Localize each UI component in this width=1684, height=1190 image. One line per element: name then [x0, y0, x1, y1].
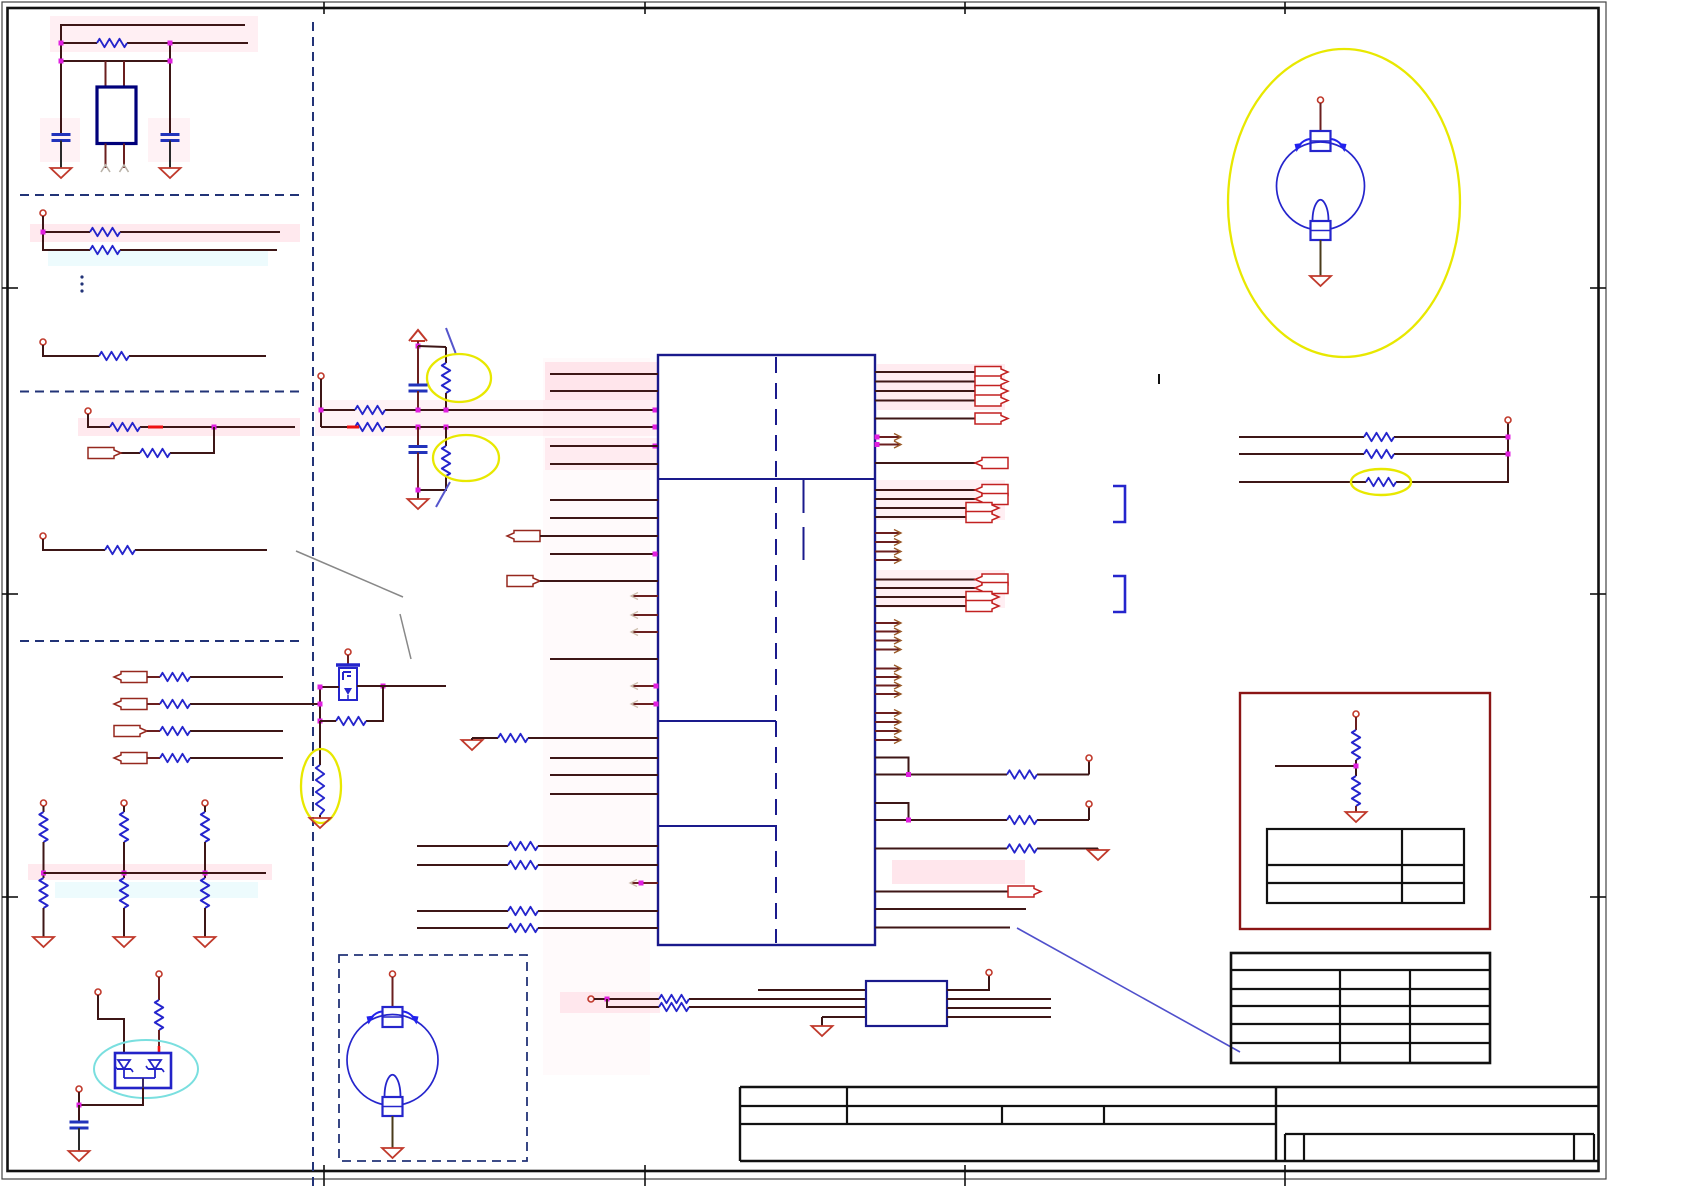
wire U1 right stub y713	[875, 710, 901, 717]
connector flag out y517	[966, 512, 999, 523]
wire U1 right stub y694	[875, 691, 901, 698]
bracket mark 1	[1113, 486, 1125, 522]
pin PT2	[156, 971, 162, 977]
ground RB	[1346, 812, 1367, 822]
wire U1 left pin y554	[550, 553, 658, 555]
wire U1 right pin y490	[875, 489, 975, 491]
wire Q1 vertical	[319, 687, 321, 721]
wire U1 right stub y444.5	[875, 441, 901, 448]
connector flag in y499	[975, 494, 1008, 505]
power arrow VCC	[409, 330, 427, 346]
ground bm	[812, 1026, 833, 1036]
yellow ellipse mark 2	[427, 354, 491, 402]
pin P3	[85, 408, 91, 414]
capacitor C3	[409, 385, 428, 391]
wire U1 right stub y623	[875, 620, 901, 627]
wire C1 to gnd	[60, 141, 62, 169]
pin PT3	[76, 1086, 82, 1092]
connector flag in y490	[975, 485, 1008, 496]
table small	[1267, 829, 1464, 903]
wire U1 pin 738	[472, 738, 658, 740]
U1 divider 1	[658, 478, 875, 480]
pin PRB	[1353, 711, 1359, 717]
resistor R11	[160, 754, 190, 762]
ground C1	[51, 168, 72, 178]
capacitor C2	[161, 135, 180, 141]
junction bm	[605, 997, 610, 1002]
wire U1 stub y632	[631, 629, 658, 636]
resistor RD2	[120, 878, 128, 908]
wire U1 pin 928a	[417, 927, 508, 929]
wire row4c	[121, 427, 214, 453]
wire row F	[875, 927, 1010, 929]
pin PQ	[345, 649, 351, 655]
wire U1 right pin y372	[875, 371, 975, 373]
resistor R28	[1366, 478, 1396, 486]
crystal Y1 top leads	[106, 61, 125, 87]
wire XTAL lower link	[61, 60, 170, 62]
connector flag F7	[507, 576, 540, 587]
pin P2	[40, 339, 46, 345]
resistor R33	[1352, 776, 1360, 806]
wire TVS right leg upper	[158, 977, 160, 1000]
wire loop B	[875, 803, 1089, 820]
resistor R31	[659, 1003, 689, 1011]
wire U1 left pin y775	[550, 774, 658, 776]
wire RB stub left	[1275, 765, 1356, 767]
junction dots mid	[319, 408, 658, 449]
junction divider 3	[203, 871, 208, 876]
pin PT1	[95, 989, 101, 995]
wire U1 pin 928b	[538, 927, 658, 929]
dashed partition h1	[20, 194, 303, 196]
wire U1 pin 911a	[417, 910, 508, 912]
wire left leg	[60, 43, 62, 135]
wire row4b	[214, 426, 295, 428]
wire flag row 1	[147, 676, 283, 678]
wire divider col 2 upper	[123, 806, 125, 812]
dashed partition h2	[20, 391, 303, 393]
wire bm row0	[758, 989, 866, 991]
wire row4a	[88, 414, 214, 427]
wire U1 left pin y374	[550, 373, 658, 375]
wire U1 right stub y640.5	[875, 637, 901, 644]
wire divider col 1 mid	[43, 842, 45, 878]
wire Q1 gate left	[320, 686, 339, 688]
connector flag out y381.5	[975, 376, 1008, 387]
pin PD1	[41, 800, 47, 806]
wire U2 out3	[947, 1016, 1051, 1018]
tick mark small	[1158, 374, 1160, 384]
wire U1 right pin y400.5	[875, 400, 975, 402]
pin PB1	[588, 996, 594, 1002]
wire U1 right pin y391	[875, 390, 975, 392]
wire U1 right pin 463	[875, 462, 975, 464]
wire divider col 3 upper	[204, 806, 206, 812]
connector flag out 418	[975, 413, 1008, 424]
wire U1 right pin y517	[875, 516, 966, 518]
wire C5 gnd	[78, 1128, 80, 1151]
wire flag row 4	[147, 757, 283, 759]
wire U2 out1	[947, 998, 1051, 1000]
capacitor C4	[409, 447, 428, 453]
junction divider 1	[41, 871, 46, 876]
connector flag out y606	[966, 601, 999, 612]
wire flag row 2	[147, 703, 320, 705]
wire to R13	[319, 721, 321, 765]
wire row1	[43, 216, 280, 232]
wire junction to C5	[78, 1105, 80, 1122]
junction lower	[416, 488, 421, 493]
resistor R32	[1352, 730, 1360, 760]
resistor R30	[659, 995, 689, 1003]
junction sec2	[41, 230, 46, 235]
resistor R17	[442, 446, 450, 476]
wire net A upper	[321, 379, 658, 410]
diode pack D1	[115, 1053, 171, 1088]
wire divider col 3 lower	[204, 908, 206, 937]
wire U1 right stub y560	[875, 557, 901, 564]
ic U2	[866, 981, 947, 1026]
wire bm row1	[594, 998, 866, 1000]
wire U1 stub y596	[631, 593, 658, 600]
resistor R19	[508, 842, 538, 850]
resistor R12	[336, 717, 366, 725]
wire C4 down	[417, 453, 419, 491]
wire U1 pin 865a	[417, 864, 508, 866]
resistor R27	[1364, 450, 1394, 458]
resistor R26	[1364, 433, 1394, 441]
wire U1 right pin y381.5	[875, 381, 975, 383]
wire RB mid	[1355, 760, 1357, 776]
stray line (artifact)	[296, 551, 411, 659]
wire U1 right pin y597	[875, 596, 966, 598]
red segment row4	[148, 426, 163, 429]
wire U1 stub y704	[631, 701, 658, 708]
resistor R24	[1007, 816, 1037, 824]
tag flag T1	[88, 448, 121, 459]
title block	[740, 1087, 1598, 1161]
wire U1 right stub y649.5	[875, 646, 901, 653]
wire U1 left pin y659	[550, 658, 658, 660]
wire divider col 1 lower	[43, 908, 45, 937]
wire TVS left leg	[98, 995, 124, 1053]
wire pin to junction	[78, 1092, 80, 1105]
ground divider 1	[33, 937, 54, 947]
wire U1 right stub y740	[875, 737, 901, 744]
wire C2 to gnd	[169, 141, 171, 169]
resistor R4	[99, 352, 129, 360]
junction right stubs	[875, 435, 880, 448]
ellipsis dots	[80, 275, 83, 292]
yellow ellipse mark 1	[301, 749, 341, 823]
resistor R15	[355, 406, 385, 414]
wire U1 pin 846a	[417, 845, 508, 847]
wire RB upper	[1355, 717, 1357, 730]
connector flag out y391	[975, 386, 1008, 397]
ground row C	[1088, 850, 1109, 860]
crystal Y1	[97, 87, 136, 144]
wire R17 down	[418, 476, 446, 499]
ground C5	[69, 1151, 90, 1161]
junction loop B	[906, 818, 911, 823]
connector flag F3	[114, 699, 147, 710]
U1 divider 3	[658, 825, 776, 827]
wire U1 stub 883	[630, 880, 658, 887]
wire divider col 2 lower	[123, 908, 125, 937]
wire U1 stub y615	[631, 612, 658, 619]
wire right leg	[169, 43, 171, 135]
wire Q1 drain top	[347, 655, 349, 664]
red segment net B	[347, 426, 359, 429]
wire R12 left	[320, 720, 336, 722]
red frame box	[1240, 693, 1490, 929]
ground divider 2	[114, 937, 135, 947]
blue slash mark 1	[446, 328, 456, 353]
wire U1 right stub y437	[875, 434, 901, 441]
wire R13 gnd	[319, 815, 321, 818]
wire U1 left pin y518	[550, 517, 658, 519]
ground divider 3	[195, 937, 216, 947]
wire net B lower	[321, 410, 658, 427]
wire U1 left pin y758	[550, 757, 658, 759]
wire net R vertical	[1507, 423, 1509, 482]
wire U1 stub y686	[631, 683, 658, 690]
wire divider col 1 upper	[43, 806, 45, 812]
U1 inner stubs	[803, 480, 805, 560]
resistor R3	[90, 246, 120, 254]
U1 divider 2	[658, 720, 776, 722]
ground R13	[310, 818, 331, 828]
pin PD2	[121, 800, 127, 806]
transistor Q1	[336, 665, 360, 700]
connector flag F5	[114, 753, 147, 764]
pin loop A	[1086, 755, 1092, 761]
resistor RD1	[39, 878, 47, 908]
wire U1 left pin y464	[550, 463, 658, 465]
dashed partition h3	[20, 640, 303, 642]
wire row D	[875, 891, 1008, 893]
resistor RU1	[39, 812, 47, 842]
wire RB lower	[1355, 806, 1357, 812]
connector flag out y508	[966, 503, 999, 514]
wire U1 right stub y542	[875, 539, 901, 546]
resistor R1	[97, 39, 127, 47]
wire U1 right pin y606	[875, 605, 966, 607]
pin P4	[40, 533, 46, 539]
wire U1 pin 581	[540, 580, 658, 582]
pin PB2	[986, 970, 992, 976]
wire net R3 row	[1239, 481, 1509, 483]
wire R14 down	[445, 393, 447, 410]
wire row2	[43, 232, 277, 250]
wire TVS right leg lower	[158, 1030, 160, 1046]
wire C3 down	[417, 391, 419, 410]
wire U2 out2	[947, 1007, 1051, 1009]
wire U1 right pin y579.5	[875, 579, 975, 581]
wire U1 right pin y499	[875, 498, 975, 500]
junction divider 2	[122, 871, 127, 876]
pointer line (blue)	[1017, 928, 1240, 1052]
wire net XTAL top	[61, 25, 245, 43]
wire U1 pin 846b	[538, 845, 658, 847]
resistor R13	[316, 765, 324, 815]
wire U1 right stub y685.5	[875, 682, 901, 689]
dashed partition vertical	[312, 22, 314, 1188]
wire U1 right stub y668.5	[875, 665, 901, 672]
wire U1 left pin y446	[550, 445, 658, 447]
no-connect marks	[101, 165, 129, 172]
wire row C	[875, 849, 1098, 851]
connector flag F4	[114, 726, 147, 737]
junction VCC	[416, 344, 421, 349]
wire Q1 right	[357, 685, 446, 687]
wire U1 right pin y588	[875, 587, 975, 589]
wire divider bus	[44, 872, 267, 874]
table large	[1231, 953, 1490, 1063]
motor/buzzer LS1	[1277, 97, 1365, 286]
junction TVS	[77, 1103, 82, 1108]
pin loop B	[1086, 801, 1092, 807]
resistor RU3	[201, 812, 209, 842]
capacitor C5	[70, 1122, 89, 1128]
connector flag out y597	[966, 592, 999, 603]
connector flag out y372	[975, 367, 1008, 378]
wire divider col 3 mid	[204, 842, 206, 878]
junction row4	[212, 425, 217, 430]
wire divider col 2 mid	[123, 842, 125, 878]
wire U1 pin 911b	[538, 910, 658, 912]
wire R17 top	[445, 427, 447, 446]
bracket mark 2	[1113, 576, 1125, 612]
resistor R8	[160, 673, 190, 681]
motor/buzzer LS2	[347, 971, 438, 1158]
connector flag in 463	[975, 458, 1008, 469]
junction stub 883	[639, 552, 659, 886]
wire U1 right stub y731	[875, 728, 901, 735]
resistor R2	[90, 228, 120, 236]
wire C4 top	[417, 427, 419, 447]
resistor R23	[1007, 770, 1037, 778]
connector flag in y588	[975, 583, 1008, 594]
wire U1 left pin y500	[550, 499, 658, 501]
wire Q1 feedback	[366, 686, 383, 721]
resistor R14	[442, 363, 450, 393]
resistor R7	[105, 546, 135, 554]
ground mid	[408, 499, 429, 509]
highlight glow (decorative)	[28, 16, 1025, 1075]
wire U1 right stub y533	[875, 530, 901, 537]
wire row E	[875, 908, 1026, 910]
yellow ellipse mark 4	[1351, 469, 1411, 495]
cyan ellipse mark	[94, 1040, 198, 1098]
resistor RD3	[201, 878, 209, 908]
wire bm row2	[607, 999, 866, 1007]
wire U1 left pin y391	[550, 390, 658, 392]
resistor RU2	[120, 812, 128, 842]
U1 center dashed line	[775, 357, 777, 943]
crystal Y1 bottom leads	[106, 144, 125, 169]
connector flag out y400.5	[975, 395, 1008, 406]
ground C2	[160, 168, 181, 178]
connector flag F2	[114, 672, 147, 683]
wire U1 left pin y794	[550, 793, 658, 795]
resistor R10	[160, 727, 190, 735]
wire row5	[43, 539, 267, 550]
pin PD3	[202, 800, 208, 806]
blue slash mark 2	[436, 482, 450, 507]
junction dots XTAL	[59, 41, 173, 64]
wire net R1 row	[1239, 436, 1508, 438]
connector flag in y579.5	[975, 574, 1008, 585]
resistor R21	[508, 907, 538, 915]
wire U1 right stub y677	[875, 674, 901, 681]
junctions Q1	[318, 684, 386, 724]
junction RB	[1354, 764, 1359, 769]
wire VCC to C3	[417, 346, 419, 385]
wire U1 right stub y722	[875, 719, 901, 726]
wire U1 pin 536	[540, 535, 658, 537]
junction loop A	[906, 772, 911, 777]
wire U1 right pin y508	[875, 507, 966, 509]
yellow ellipse mark 3	[433, 435, 499, 481]
wire XTAL1 row	[61, 42, 248, 44]
wire flag row 3	[147, 730, 283, 732]
yellow ellipse mark 5	[1228, 49, 1460, 357]
red segment TVS	[158, 1046, 161, 1053]
resistor R18	[498, 734, 528, 742]
wire row3	[43, 345, 266, 356]
ground row U1	[462, 740, 483, 750]
capacitor C1	[52, 135, 71, 141]
pin PR	[1505, 417, 1511, 423]
wire U1 right stub y631.5	[875, 628, 901, 635]
wire U1 right pin 418	[875, 418, 975, 420]
wire loop A	[875, 758, 1089, 775]
wire net R2 row	[1239, 453, 1508, 455]
resistor R5	[110, 423, 140, 431]
resistor R6	[140, 449, 170, 457]
resistor R9	[160, 700, 190, 708]
pin P1	[40, 210, 46, 216]
resistor R20	[508, 861, 538, 869]
junctions net R	[1506, 435, 1511, 457]
wire VCC to R14	[418, 346, 446, 363]
resistor R16	[355, 423, 385, 431]
op-amp U1 body	[658, 355, 875, 945]
connector flag F6	[507, 531, 540, 542]
dashed box	[339, 955, 527, 1161]
wire U1 pin 865b	[538, 864, 658, 866]
pin P5	[318, 373, 324, 379]
resistor R25	[1007, 844, 1037, 852]
wire bm row3	[822, 1017, 866, 1026]
resistor R29	[155, 1000, 163, 1030]
wire U1 right stub y551.5	[875, 548, 901, 555]
resistor R22	[508, 924, 538, 932]
wire TVS bottom	[79, 1088, 143, 1105]
wire U2 out0	[947, 976, 989, 990]
connector flag out D	[1008, 886, 1041, 897]
